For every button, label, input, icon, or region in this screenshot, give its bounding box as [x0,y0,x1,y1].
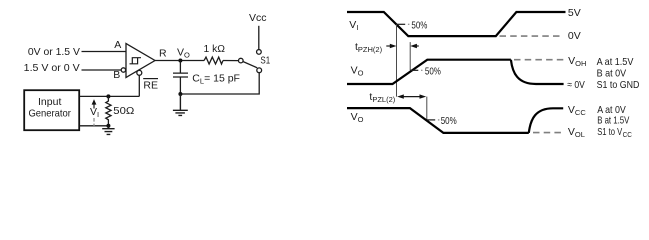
tPZH arrow right (points left) [416,45,419,47]
switch S1 terminal to R1 [239,58,244,63]
junction node ground rail [178,92,182,96]
switch S1 arm [243,62,257,68]
dashed VOH level line [514,59,566,61]
tPZL double arrow [403,96,420,98]
svg-text:1 kΩ: 1 kΩ [204,43,226,55]
svg-text:VO: VO [351,64,364,77]
wire Vcc stem [258,26,260,50]
svg-text:RE: RE [143,79,158,91]
svg-text:B at 0V: B at 0V [597,67,627,79]
junction node top of R2 [106,94,110,98]
waveform VO tPZH disable decay curve [511,60,564,84]
dashed 0V level line [500,35,561,37]
wire input A [82,51,127,53]
capacitor CL [173,61,188,95]
svg-text:R: R [159,47,167,59]
reference line VO rise 50% [409,42,411,70]
hysteresis symbol inside U1 [130,58,142,64]
svg-text:S1 to GND: S1 to GND [597,79,640,91]
svg-text:50%: 50% [425,66,441,78]
dashed VOL level line [533,132,562,134]
VI measurement arrow [93,104,95,109]
svg-text:VCC: VCC [568,104,586,117]
wire output node R [155,60,204,62]
svg-text:S1: S1 [260,56,270,67]
waveform VO tPZL disable rise curve [529,108,563,133]
svg-text:50%: 50% [441,115,457,127]
reference line VI 50% crossing [396,24,398,96]
svg-text:CC: CC [623,130,633,139]
ground under CL [173,94,188,115]
resistor R1 1 kOhm [204,57,223,64]
wire generator return [80,125,109,127]
wire generator output to enable riser [80,95,140,97]
svg-text:VOH: VOH [568,55,586,68]
50% tick VO bottom [427,119,435,121]
enable bubble on U1 [137,70,142,75]
svg-text:VI: VI [349,19,358,32]
svg-text:tPZH(2): tPZH(2) [355,41,383,54]
input generator box [24,90,79,130]
50% tick VI [397,23,406,25]
svg-text:CL= 15 pF: CL= 15 pF [192,72,240,85]
op-amp U1 Schmitt-trigger buffer triangle [126,44,155,78]
svg-text:VI: VI [90,106,99,119]
svg-text:S1 to V: S1 to V [597,126,622,138]
junction node VO [178,59,182,63]
bubble on input B [121,68,125,72]
svg-text:0V: 0V [568,30,581,42]
svg-text:≈ 0V: ≈ 0V [567,79,585,91]
svg-text:tPZL(2): tPZL(2) [369,91,395,104]
svg-text:1.5 V or 0 V: 1.5 V or 0 V [24,62,80,74]
waveform VI trace [347,12,566,36]
reference line VO fall 50% [426,97,428,121]
svg-text:VO: VO [351,111,364,124]
svg-text:50%: 50% [411,19,427,31]
svg-text:50Ω: 50Ω [113,105,134,117]
ground under R2 [102,126,114,135]
svg-text:B at 1.5V: B at 1.5V [597,115,629,127]
svg-text:Input: Input [38,96,61,108]
resistor R2 50 Ohm (vertical) [106,96,111,125]
junction node bottom of R2 [106,124,110,128]
50% tick VO mid [410,69,418,71]
svg-text:A at 1.5V: A at 1.5V [597,56,634,68]
svg-text:VOL: VOL [568,126,585,139]
wire input B [82,69,122,71]
tPZH arrow left (points right) [386,45,390,47]
svg-text:B: B [113,69,120,81]
waveform VO tPZL trace [347,108,529,133]
svg-text:0V or 1.5 V: 0V or 1.5 V [28,46,80,58]
wire enable RE down to generator net [138,75,140,96]
svg-text:A: A [114,39,121,51]
svg-text:Vcc: Vcc [249,12,267,24]
wire R1 to S1 [223,60,238,62]
switch S1 terminal to Vcc [257,50,262,55]
waveform VO tPZH trace [347,60,511,84]
svg-text:Generator: Generator [28,108,71,120]
svg-text:5V: 5V [568,7,581,19]
svg-text:VO: VO [177,47,190,60]
wire bottom rail from CL to S1 pole [180,73,259,94]
switch S1 pole [257,68,262,73]
